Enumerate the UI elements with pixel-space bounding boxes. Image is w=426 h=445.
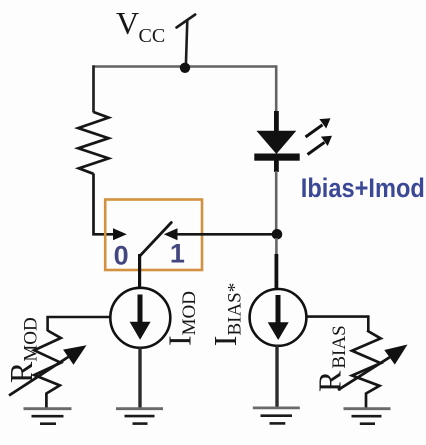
switch throw 0 arrow <box>113 228 127 240</box>
RBIAS adjustment arrow <box>338 345 408 391</box>
wire IBIAS node to RBIAS <box>306 317 368 331</box>
power symbol VCC <box>177 15 196 69</box>
switch highlight box (orange) <box>105 200 202 271</box>
label IMOD <box>162 291 201 346</box>
svg-text:CC: CC <box>139 25 166 47</box>
svg-text:0: 0 <box>114 241 129 271</box>
variable resistor RBIAS <box>352 331 381 409</box>
svg-text:1: 1 <box>170 239 185 269</box>
label RMOD <box>3 317 42 383</box>
net label VCC <box>116 5 165 47</box>
RMOD adjustment arrow <box>9 345 87 395</box>
ground (IMOD) <box>116 409 163 424</box>
label RBIAS <box>312 325 351 392</box>
LED light arrow 1 <box>306 118 331 137</box>
wire junction to IBIAS <box>275 238 278 255</box>
ground (IBIAS) <box>253 408 300 424</box>
ground (RBIAS) <box>344 409 391 424</box>
junction switch/IBIAS node <box>272 229 283 240</box>
wire resistor to switch input 0 <box>94 174 114 235</box>
label IBIAS* <box>207 283 246 346</box>
wire VCC rail (top horizontal) <box>94 65 277 68</box>
LED light arrow 2 <box>308 136 333 155</box>
ground (RMOD) <box>24 409 72 424</box>
switch lever <box>140 223 172 257</box>
switch throw 1 arrow and wire to junction <box>164 228 276 240</box>
current source IMOD <box>110 288 170 348</box>
current source IBIAS* <box>250 289 307 346</box>
wire right branch down from rail <box>275 65 278 112</box>
resistor (pull-up, left branch) <box>78 112 108 174</box>
wire left branch down from rail <box>92 65 95 112</box>
wire IBIAS to ground <box>275 346 278 408</box>
LED anode lead <box>274 111 279 133</box>
junction VCC rail <box>180 63 190 73</box>
LED (laser diode) <box>254 131 299 172</box>
wire IMOD to ground <box>138 348 141 409</box>
wire switch pole down to IMOD <box>138 254 141 289</box>
svg-text:V: V <box>116 5 139 41</box>
svg-text:Ibias+Imod: Ibias+Imod <box>301 173 425 203</box>
wire LED cathode to junction <box>275 171 278 233</box>
wire RMOD to IMOD <box>48 317 111 331</box>
variable resistor RMOD <box>34 331 61 409</box>
